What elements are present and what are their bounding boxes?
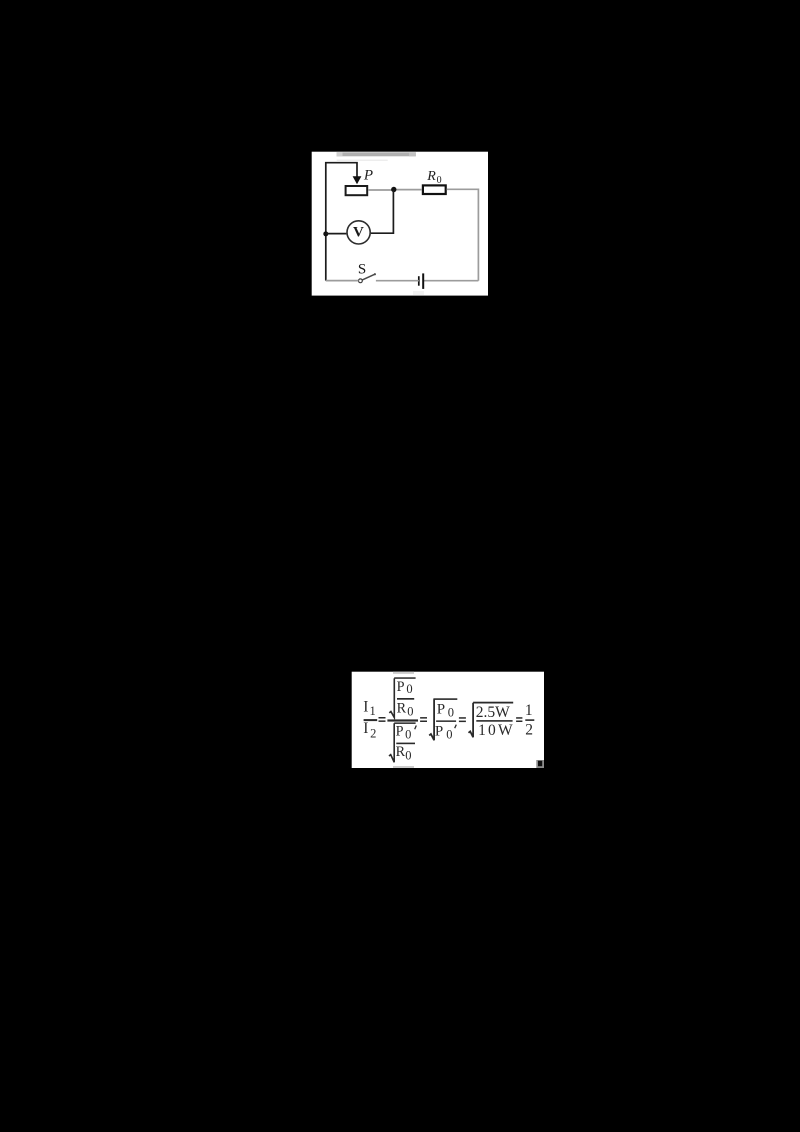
gray tick top of formula bbox=[393, 672, 414, 674]
svg-text:0: 0 bbox=[448, 705, 454, 719]
svg-text:0: 0 bbox=[405, 728, 411, 742]
svg-text:2: 2 bbox=[370, 727, 376, 741]
wire rheostat to node bbox=[368, 189, 393, 191]
equals 4 bbox=[516, 717, 522, 722]
svg-text:V: V bbox=[353, 225, 364, 241]
equals 2 bbox=[420, 717, 427, 722]
wire bottom right to battery bbox=[423, 280, 478, 282]
svg-text:P: P bbox=[397, 679, 405, 695]
svg-text:P: P bbox=[435, 724, 443, 740]
rheostat P body bbox=[346, 186, 368, 195]
term one half bbox=[525, 702, 534, 738]
resize handle corner bbox=[536, 760, 544, 768]
svg-text:10W: 10W bbox=[478, 722, 515, 739]
svg-text:S: S bbox=[358, 262, 366, 278]
svg-text:1: 1 bbox=[525, 702, 533, 719]
gray tick bottom of formula bbox=[393, 766, 414, 768]
resistor R0 body bbox=[423, 185, 446, 194]
svg-text:I: I bbox=[363, 720, 368, 737]
svg-text:2.5W: 2.5W bbox=[476, 704, 510, 721]
circuit panel background bbox=[312, 152, 488, 296]
wire node to R0 bbox=[397, 189, 422, 191]
wire switch to bottom left corner bbox=[326, 280, 359, 282]
svg-text:R: R bbox=[396, 744, 406, 760]
wire top loop from slider to left rail bbox=[326, 163, 357, 281]
main fraction bar bbox=[387, 719, 418, 721]
node junction dot left rail bbox=[323, 231, 328, 236]
svg-text:1: 1 bbox=[370, 704, 376, 718]
wire battery to switch bbox=[376, 280, 419, 282]
node junction dot top bbox=[391, 187, 396, 192]
faint artifact line under gray bar bbox=[337, 160, 388, 161]
scrollbar artifact gray bar bbox=[337, 152, 416, 156]
wire node down to voltmeter bbox=[371, 190, 394, 234]
sqrt(P0 over P0') bbox=[429, 698, 457, 741]
svg-text:0: 0 bbox=[407, 704, 413, 718]
switch pivot contact bbox=[359, 279, 363, 283]
svg-text:R: R bbox=[426, 169, 436, 184]
radical denominator bbox=[394, 722, 415, 724]
equals 1 bbox=[379, 717, 386, 722]
radical numerator bbox=[389, 678, 394, 717]
equals 3 bbox=[459, 717, 466, 722]
battery cell long plate bbox=[422, 273, 424, 289]
svg-text:2: 2 bbox=[525, 721, 533, 738]
wire left rail to voltmeter bbox=[326, 233, 347, 235]
slider arrow of rheostat bbox=[353, 176, 362, 184]
sqrt(2.5W over 10W) bbox=[469, 702, 515, 739]
voltmeter V bbox=[347, 221, 370, 244]
svg-text:0: 0 bbox=[446, 728, 452, 742]
svg-text:P: P bbox=[363, 168, 373, 184]
faint smudge under battery bbox=[413, 291, 424, 295]
svg-text:I: I bbox=[363, 698, 368, 715]
svg-text:P: P bbox=[437, 701, 445, 717]
battery cell short plate bbox=[418, 276, 420, 286]
term I1 over I2 bbox=[363, 698, 377, 740]
wire R0 to right rail and down bbox=[447, 189, 479, 280]
formula panel background bbox=[352, 672, 544, 768]
svg-text:0: 0 bbox=[405, 748, 411, 762]
switch S lever bbox=[362, 274, 375, 280]
svg-text:0: 0 bbox=[406, 682, 412, 696]
svg-text:R: R bbox=[397, 700, 407, 716]
svg-text:P: P bbox=[396, 724, 404, 740]
big fraction: sqrt(P0/R0) over sqrt(P0'/R0) bbox=[387, 677, 418, 762]
